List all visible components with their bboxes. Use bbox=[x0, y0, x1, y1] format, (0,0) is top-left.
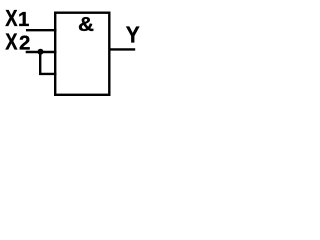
wire X2 input bbox=[26, 51, 57, 53]
junction dot on X2 wire bbox=[38, 49, 44, 55]
wire X2 branch vertical bbox=[39, 52, 41, 74]
svg-text:1: 1 bbox=[18, 8, 29, 31]
svg-text:X: X bbox=[5, 29, 18, 55]
wire X2 branch horizontal to third input bbox=[39, 73, 57, 75]
svg-text:X: X bbox=[5, 5, 18, 31]
svg-text:&: & bbox=[78, 13, 94, 36]
wire Y output bbox=[109, 48, 136, 50]
svg-text:Y: Y bbox=[126, 21, 140, 47]
wire X1 input bbox=[26, 29, 57, 31]
AND gate U1 (IEC rectangle) bbox=[55, 13, 109, 95]
